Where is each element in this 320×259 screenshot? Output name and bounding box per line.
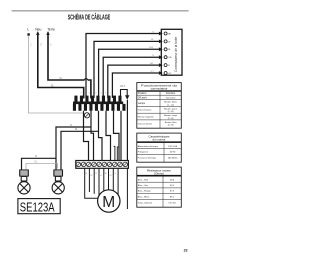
terminal arrow 2 (159, 40, 163, 44)
wire Terre (with hop over crossing) (48, 33, 85, 81)
terminal arrow 5 (159, 63, 163, 67)
wire M6 strip to motor (108, 168, 110, 190)
svg-text:SCHÉMA DE CÂBLAGE: SCHÉMA DE CÂBLAGE (68, 13, 111, 22)
model box SE123A (18, 199, 60, 214)
strip screw 8 (113, 162, 118, 167)
svg-text:23: 23 (184, 248, 188, 252)
svg-text:6: 6 (96, 93, 98, 95)
svg-text:O: O (114, 173, 116, 175)
svg-text:Bleu - Gris: Bleu - Gris (138, 184, 149, 187)
wire M5 strip to motor (103, 168, 105, 191)
wire M1 strip to motor (85, 168, 98, 198)
svg-text:(3 - B): (3 - B) (168, 125, 174, 127)
svg-text:B: B (86, 173, 88, 175)
lamp E1 bulb (18, 182, 30, 194)
svg-text:120 VCA: 120 VCA (168, 145, 177, 148)
svg-text:Off arrêt: Off arrêt (138, 97, 147, 100)
svg-text:5: 5 (105, 93, 107, 95)
svg-text:85.1: 85.1 (170, 197, 175, 199)
wire W2 switch feed (94, 41, 159, 98)
svg-text:BR: BR (150, 63, 153, 65)
wire M2 strip to motor (88, 168, 90, 192)
svg-text:1T: 1T (40, 45, 43, 47)
terminal arrow 3 (159, 47, 163, 51)
lamp E2 holder (54, 170, 63, 181)
terminal circle 1 (164, 32, 167, 35)
svg-text:W: W (90, 175, 92, 177)
svg-text:Temp. ambiante: Temp. ambiante (138, 202, 153, 205)
svg-text:2BLK: 2BLK (120, 86, 126, 88)
svg-text:W: W (168, 41, 171, 43)
svg-text:2: 2 (81, 93, 83, 95)
svg-text:GY: GY (168, 73, 172, 75)
svg-text:7: 7 (110, 93, 112, 95)
terminal circle 4 (164, 56, 167, 59)
svg-text:R: R (168, 65, 170, 67)
svg-text:Vitesse basse: Vitesse basse (138, 109, 152, 112)
svg-text:Bleu - Rouge: Bleu - Rouge (138, 191, 152, 193)
svg-text:Bouton: blanc: Bouton: blanc (164, 101, 177, 104)
terminal arrow 4 (159, 55, 163, 59)
switch box U1 (161, 29, 182, 75)
svg-text:Alimentation électrique: Alimentation électrique (138, 145, 159, 148)
wire pin B to strip (jog, lamp tee) (91, 111, 94, 161)
svg-text:(L - Lo): (L - Lo) (167, 104, 174, 106)
svg-text:(1 - B): (1 - B) (168, 111, 174, 113)
wire W5 switch feed (108, 65, 159, 98)
wire pin D to strip (jog) (106, 111, 111, 161)
jumper wire with plug arrow (121, 90, 128, 98)
wire L (thin gray line) (27, 33, 29, 35)
strip screw 5 (97, 162, 102, 167)
svg-text:L: L (27, 28, 29, 32)
svg-text:Bouton: rouge: Bouton: rouge (164, 114, 178, 117)
tiny wire code marks above connector (81, 93, 112, 95)
svg-text:GY: GY (151, 71, 155, 73)
svg-text:OR: OR (168, 57, 172, 59)
terminal strip TB1 (76, 161, 129, 169)
svg-text:Fonction: Fonction (166, 92, 176, 95)
terminal circle 5 (164, 64, 167, 67)
motor M (98, 190, 120, 212)
wire M9 strip down right (126, 168, 128, 209)
terminal circle 6 (164, 72, 167, 75)
svg-text:Position: Position (138, 92, 147, 95)
wire lamp feed B2 (61, 131, 99, 170)
svg-text:Bouton: jaune: Bouton: jaune (164, 107, 178, 110)
strip screw 4 (92, 162, 97, 167)
svg-text:28.6: 28.6 (170, 179, 175, 181)
wire M8 strip to motor (117, 168, 119, 194)
svg-text:Lampe: Lampe (138, 102, 146, 105)
svg-text:9.27 KΩ: 9.27 KΩ (168, 203, 176, 205)
svg-text:commutateur: commutateur (151, 87, 168, 91)
table T2 Caractéristiques du moteur (137, 133, 182, 162)
terminal arrow 6 (159, 71, 163, 75)
wire pin A to strip (jog) (84, 111, 89, 161)
strip screw 7 (107, 162, 112, 167)
svg-text:Terre: Terre (47, 28, 55, 32)
svg-text:G: G (100, 175, 102, 177)
header rule (12, 10, 189, 11)
table T1 Fonctionnement du commutateur (137, 83, 182, 129)
strip screw 2 (81, 162, 86, 167)
wire pin C to strip (jog) (99, 111, 103, 161)
svg-text:180 Watts: 180 Watts (168, 157, 179, 160)
svg-text:M: M (102, 194, 115, 211)
crimp stub b (117, 147, 118, 161)
wire pin F to strip (120, 111, 122, 161)
table T3 Résistance moteur (137, 167, 182, 207)
svg-text:Bleu - Blanc: Bleu - Blanc (138, 197, 151, 199)
svg-text:(2 - B): (2 - B) (168, 118, 174, 120)
svg-text:G: G (50, 45, 52, 47)
strip screw 3 (87, 162, 92, 167)
svg-text:Neu: Neu (35, 28, 41, 32)
lamp E1 holder (20, 170, 29, 181)
wire M3 strip to motor (93, 168, 95, 194)
wire W6 switch feed (112, 73, 159, 98)
svg-text:BL: BL (168, 49, 171, 51)
terminal screw on L wire (84, 113, 89, 118)
svg-text:Commutateur de la hotte: Commutateur de la hotte (174, 36, 178, 71)
svg-text:40.1: 40.1 (170, 185, 175, 187)
wire lamp feed B1 (56, 127, 91, 171)
terminal circle 2 (164, 40, 167, 43)
svg-text:60 Hz: 60 Hz (170, 152, 176, 154)
motor wire labels (86, 173, 117, 177)
svg-text:Puissance électrique: Puissance électrique (138, 157, 157, 160)
svg-text:Bouton: bleu: Bouton: bleu (165, 121, 178, 124)
svg-text:SE123A: SE123A (20, 199, 55, 214)
svg-text:du moteur: du moteur (152, 138, 165, 142)
terminal arrow 1 (159, 32, 163, 36)
strip screw 1 (76, 162, 81, 167)
svg-text:3: 3 (101, 93, 103, 95)
svg-text:Tout éteint: Tout éteint (166, 97, 176, 100)
svg-text:Vitesse élevée: Vitesse élevée (138, 122, 153, 125)
wire W1 switch feed (86, 34, 159, 99)
svg-text:2: 2 (30, 45, 32, 47)
svg-text:Fréquence: Fréquence (138, 151, 149, 154)
svg-text:GY: GY (110, 175, 114, 177)
wire M7 strip to motor (112, 168, 114, 190)
wire Neu (38, 33, 84, 99)
svg-text:R: R (95, 173, 97, 175)
crimp stub a (114, 146, 115, 160)
wire lamp1 gray branch (26, 163, 58, 170)
wire lamp1 black branch (22, 158, 57, 170)
lamp E2 bulb (52, 182, 64, 194)
wire jumper to terminal strip (126, 100, 128, 161)
wire M4 strip to motor (98, 168, 100, 195)
svg-text:BL: BL (105, 173, 108, 175)
svg-text:67.3: 67.3 (170, 191, 175, 193)
strip screw 10 (123, 162, 128, 167)
strip screw 6 (102, 162, 107, 167)
svg-text:BK: BK (168, 33, 171, 35)
svg-text:Vitesse moyenne: Vitesse moyenne (138, 115, 155, 118)
connector CN1 comb block (73, 96, 126, 111)
svg-text:W/B: W/B (149, 47, 154, 49)
svg-text:Bleu - Noir: Bleu - Noir (138, 178, 149, 181)
wire W4 switch feed (103, 57, 159, 98)
strip screw 9 (118, 162, 123, 167)
wire pin E to strip (jog) (114, 111, 120, 161)
wire W3 switch feed (99, 49, 160, 98)
terminal circle 3 (164, 48, 167, 51)
